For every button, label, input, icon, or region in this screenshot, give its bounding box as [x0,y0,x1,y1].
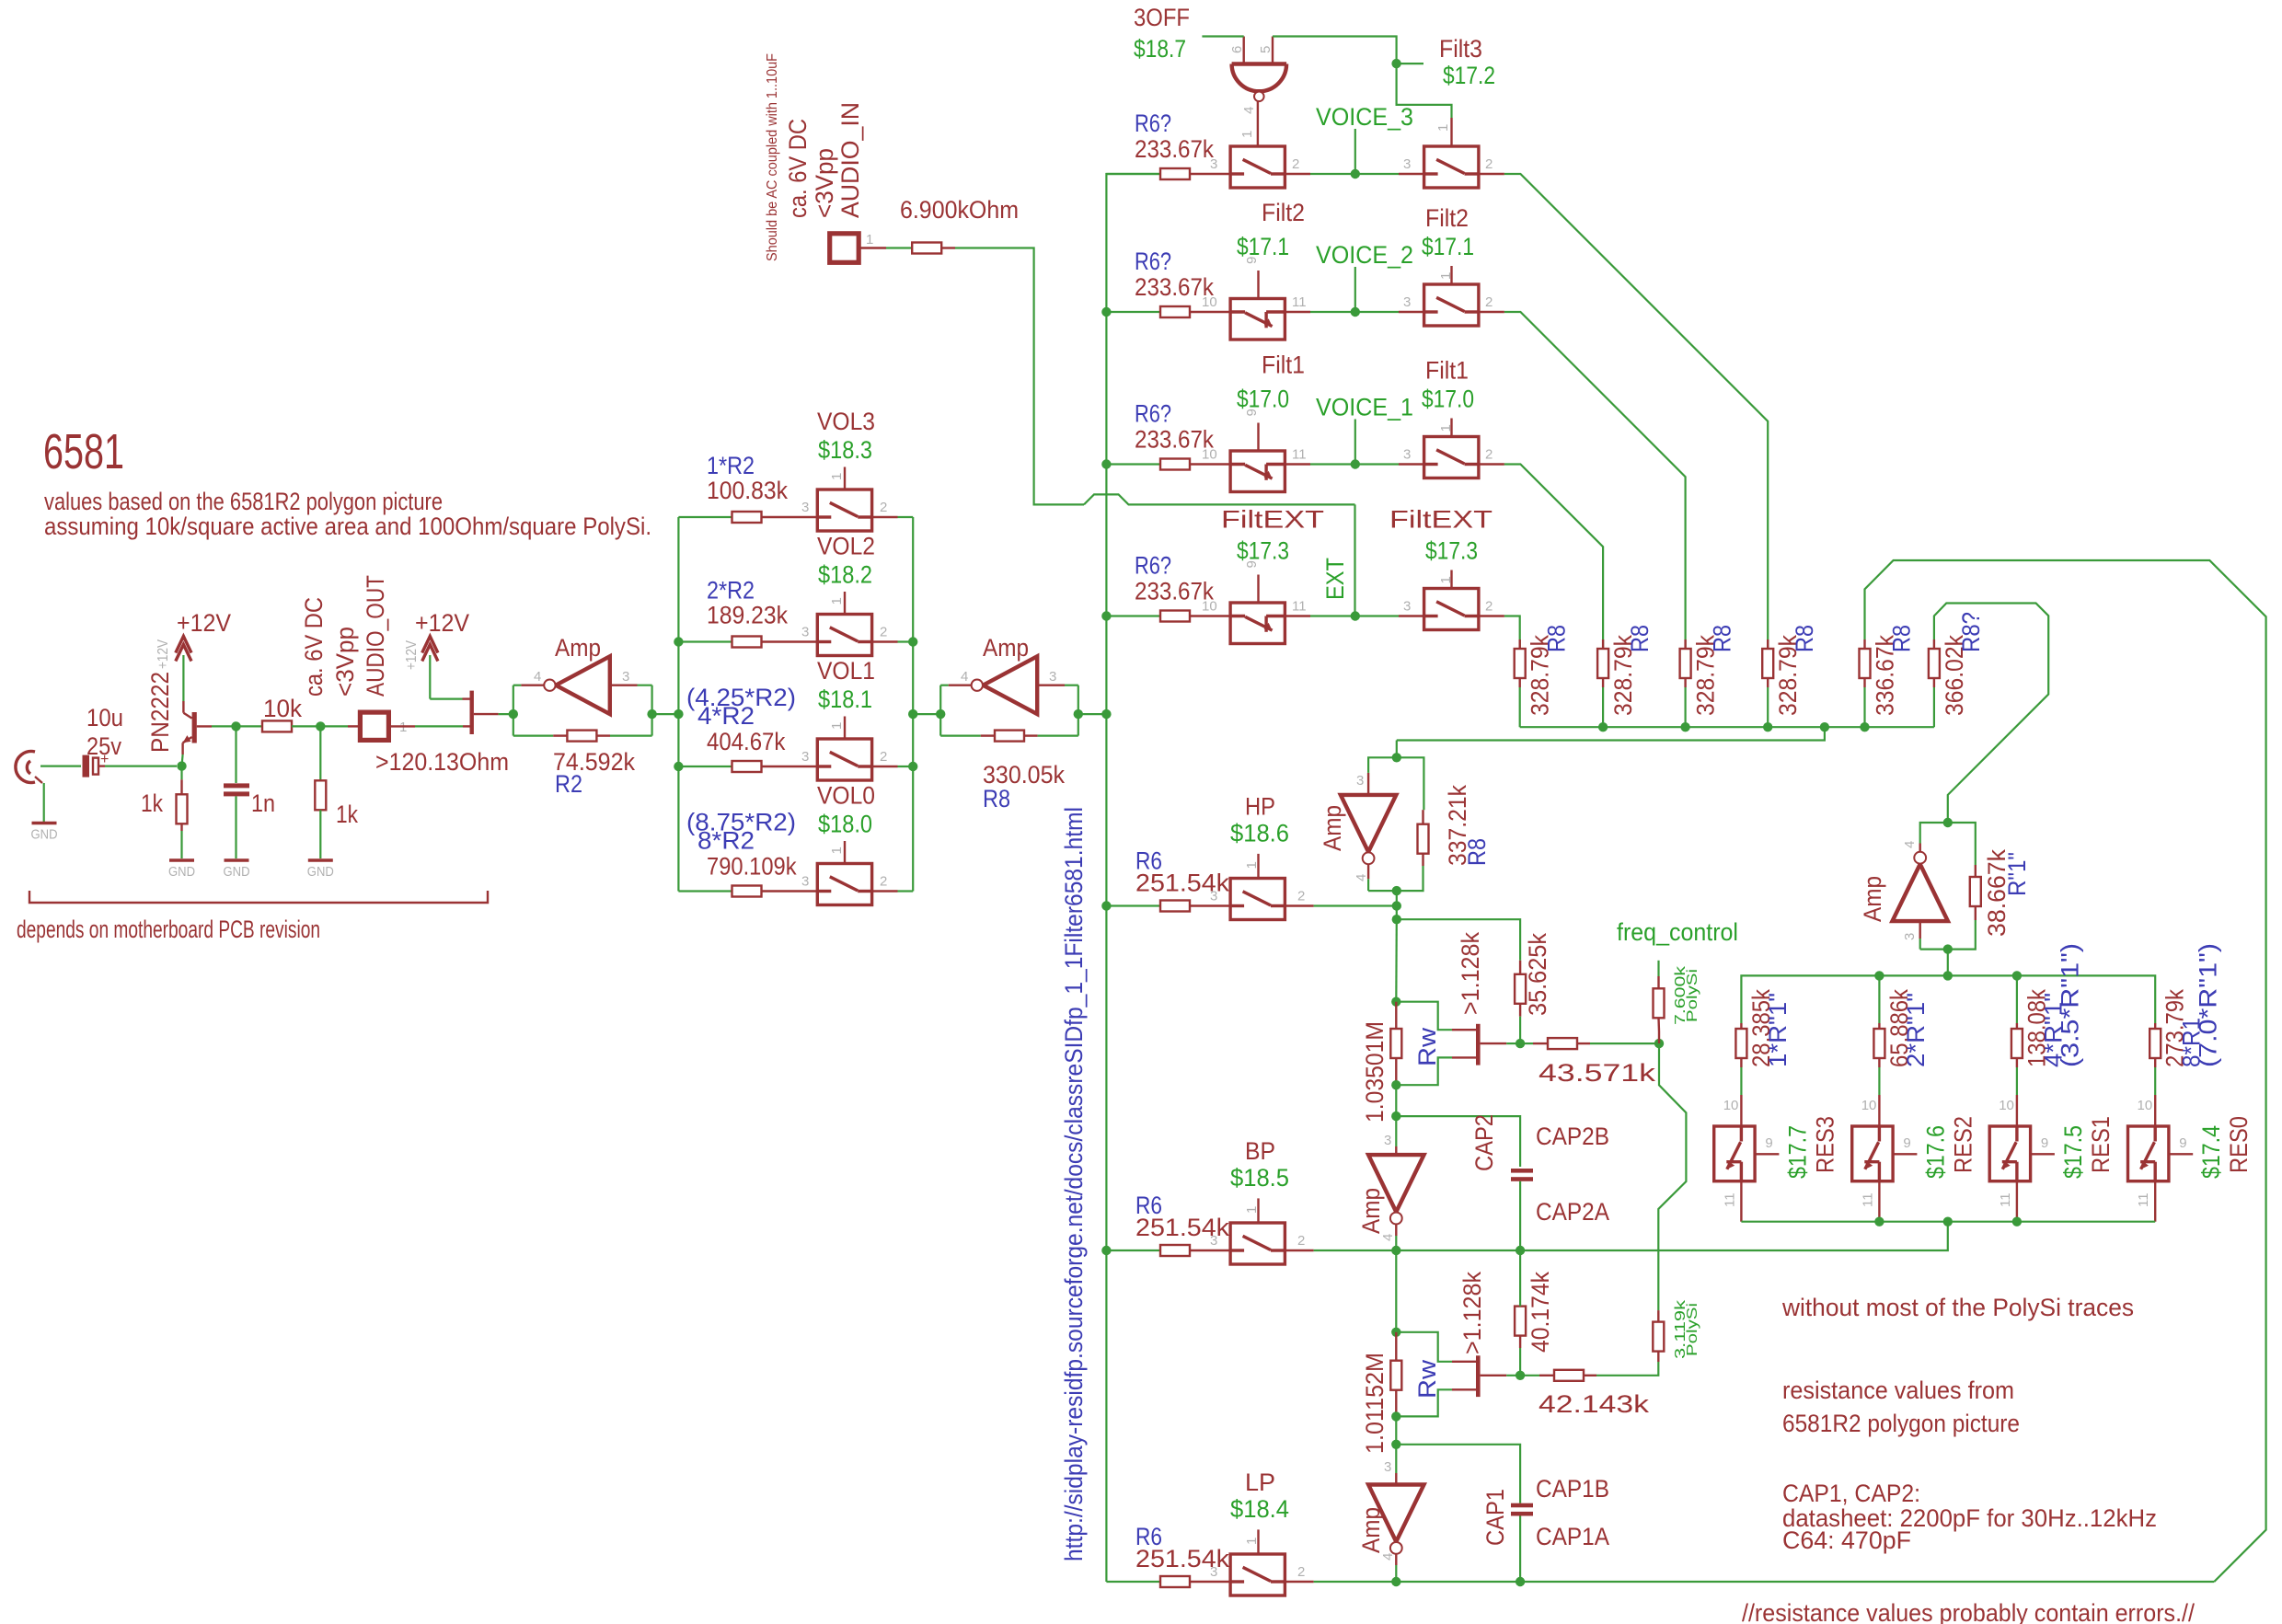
op-amp Amp LP [1368,1485,1423,1542]
wire row FiltEXT output [1479,615,1504,616]
resistor R6 251.54k LP [1160,1576,1190,1587]
switch right Filt2 [1424,284,1479,326]
wire jack to GND [43,783,45,822]
wire Filt1 output diagonal to column 2 [1504,465,1603,650]
wire VOL1 row [678,766,732,767]
svg-text:VOL3: VOL3 [817,408,875,435]
capacitor 10u 25v electrolytic [83,755,90,777]
resistor R8 328.79k column [1597,649,1608,678]
svg-text:$17.6: $17.6 [1921,1125,1949,1179]
svg-text:233.67k: 233.67k [1135,135,1214,163]
resistor 65.886k RES2 [1878,975,1880,1023]
svg-text:Amp: Amp [1357,1188,1385,1234]
pin 9 stub left switch FiltEXT [1257,575,1259,604]
svg-text:1*R"1": 1*R"1" [1764,993,1792,1067]
svg-text:10: 10 [1202,599,1217,615]
svg-text:CAP1: CAP1 [1481,1489,1509,1546]
wire 40.174k to gate dot [1519,1348,1521,1376]
pad AUDIO_IN [830,234,859,262]
op-amp Amp2 [983,656,1037,714]
junction Rw1 bottom dot [1391,1080,1400,1089]
svg-text:$18.7: $18.7 [1134,35,1186,63]
wire +12V to FET drain [429,655,431,699]
wire LP row [1285,1581,1313,1583]
svg-text:R6?: R6? [1135,552,1171,580]
pin 9 stub left switch Filt1 [1257,423,1259,452]
wire Amp4 output to RES bus [1947,950,1949,976]
svg-text:1: 1 [829,473,845,480]
junction Filt3 net dot [1391,59,1400,68]
svg-text:<3Vpp: <3Vpp [811,148,838,218]
wire AUDIO_OUT pad to FET gate [388,725,415,727]
switch RES1 [1989,1126,2030,1181]
net label VOICE_2 [1354,267,1356,312]
resistor 1.03501M [1390,1029,1401,1058]
svg-text:10: 10 [1723,1098,1739,1113]
svg-text:PolySi: PolySi [1685,969,1700,1022]
svg-text:(7.0*R"1"): (7.0*R"1") [2195,943,2222,1067]
svg-text:values based on the 6581R2 pol: values based on the 6581R2 polygon pictu… [44,488,443,515]
pin 11 wire RES3 [1740,1181,1742,1222]
op-amp Amp HP [1341,795,1396,852]
svg-text:>1.128k: >1.128k [1457,932,1484,1015]
wire Q1 emitter to R-1k [182,754,183,766]
svg-text:Amp: Amp [1319,805,1346,851]
wire HP row to amp node [1285,904,1313,906]
svg-text:resistance values from: resistance values from [1782,1376,2014,1404]
svg-text:1: 1 [1438,576,1454,583]
svg-text:1: 1 [1244,1206,1260,1214]
wire R-1k right to GND [319,810,321,858]
svg-text:HP: HP [1245,793,1275,821]
svg-text:2*R"1": 2*R"1" [1902,993,1930,1067]
junction row FiltEXT mid dot [1351,611,1360,620]
pin 9 stub RES0 [2169,1153,2193,1155]
svg-text:R8: R8 [1791,625,1818,652]
svg-text:VOL2: VOL2 [817,533,875,560]
junction HP gate corner [1392,915,1401,924]
junction Rw2 bottom dot [1391,1411,1400,1421]
svg-text:ca. 6V DC: ca. 6V DC [300,597,328,697]
wire 3OFF input [1202,35,1243,37]
wire 42.143k to 3.119k [1596,1362,1658,1376]
pin 11 wire RES0 [2154,1181,2156,1222]
svg-text:404.67k: 404.67k [707,728,786,755]
wire gate node to 43.571k [1506,1042,1520,1044]
switch RES3 [1714,1126,1755,1181]
svg-text:$18.6: $18.6 [1230,820,1289,847]
switch right FiltEXT [1424,589,1479,630]
svg-text:CAP1, CAP2:: CAP1, CAP2: [1782,1480,1920,1507]
wire summing bus to HP amp [1397,727,1825,740]
pin 11 wire RES2 [1878,1181,1880,1222]
wire row Filt2 output [1479,311,1504,313]
svg-text:3: 3 [801,625,809,640]
wire 6.900kOhm to EXT [941,247,955,248]
svg-text:$17.1: $17.1 [1422,233,1474,260]
svg-text:1: 1 [829,847,845,854]
svg-text:2: 2 [1292,156,1299,172]
svg-text:100.83k: 100.83k [707,477,788,504]
wire main audio bus [1106,174,1160,1582]
svg-text:1k: 1k [141,789,163,817]
wire Amp2 output to main bus [1078,713,1107,715]
resistor 138.08k RES1 [2016,975,2018,1023]
wire Rw2 lower loop [1396,1389,1452,1416]
svg-text:1n: 1n [251,789,275,817]
pin 9 stub RES2 [1893,1153,1917,1155]
svg-text:10k: 10k [263,695,302,722]
svg-text:RES3: RES3 [1811,1116,1838,1173]
resistor R6? 233.67k row Filt1 [1160,459,1190,470]
svg-text:R6?: R6? [1135,400,1171,428]
svg-text:3: 3 [1210,156,1217,172]
wire CAP1 branch [1396,1445,1520,1503]
wire RES bottom bus [1741,1221,2155,1223]
junction LP row dots [1391,1577,1400,1586]
svg-text:$18.0: $18.0 [818,811,872,838]
svg-text:Rw: Rw [1413,1027,1441,1066]
pins nand 6 5 1 [1242,37,1244,64]
wire row Filt3 output [1479,173,1504,175]
svg-text:2: 2 [1297,1564,1305,1580]
svg-text:3: 3 [1403,156,1411,172]
svg-text:9: 9 [2179,1135,2186,1151]
svg-text:GND: GND [168,864,195,880]
svg-text:2: 2 [880,749,887,765]
wire C-10u to Q1 emitter node [105,765,177,766]
pin 11 wire RES1 [2016,1181,2018,1222]
wire BP chain down [1395,1250,1397,1332]
junction Amp4 output node dot [1943,944,1953,953]
resistor R6? 233.67k row Filt3 [1160,168,1190,179]
junction VOL left bus dots [674,637,683,646]
wire R8 bottom summing bus [1520,726,1934,728]
resistor R 10k [262,720,292,731]
svg-text:$17.0: $17.0 [1422,386,1474,413]
junction Amp2 output node [1074,709,1083,719]
svg-text:1: 1 [829,722,845,730]
junction CAP1 node dot [1391,1440,1400,1449]
wire row Filt1 output [1479,463,1504,465]
svg-text:11: 11 [1292,599,1307,615]
switch VOL0 [817,864,871,905]
net label VOICE_1 [1354,420,1356,465]
wire row FiltEXT bus to resistor [1106,615,1160,616]
switch BP [1230,1223,1285,1264]
svg-text:11: 11 [1722,1192,1737,1207]
wire row Filt3 between switches [1285,173,1310,175]
svg-text:10: 10 [2138,1098,2153,1113]
svg-text:Filt2: Filt2 [1262,199,1305,226]
pad AUDIO_OUT [348,725,360,727]
svg-text:VOL1: VOL1 [817,657,875,685]
switch left Filt2 row Filt2 [1230,299,1285,340]
svg-text:depends on motherboard PCB rev: depends on motherboard PCB revision [17,916,320,943]
op-amp Amp1 [556,656,610,714]
junction Rw1 top dot [1391,997,1400,1007]
wire Rw1 upper loop [1396,1002,1452,1031]
junction VOL right bus dots [908,637,917,646]
svg-text://resistance values probably c: //resistance values probably contain err… [1742,1599,2195,1624]
resistor R8 328.79k column [1515,649,1526,678]
svg-text:2: 2 [1297,1233,1305,1249]
wire Q1 collector to +12V [182,655,184,701]
wire HP chain down [1395,919,1398,1001]
svg-text:R"1": R"1" [2003,852,2031,896]
wire gate node to 42.143k [1506,1375,1539,1376]
svg-text:2: 2 [880,625,887,640]
switch RES0 [2128,1126,2169,1181]
svg-text:9: 9 [1903,1135,1910,1151]
svg-text:assuming 10k/square active are: assuming 10k/square active area and 100O… [44,513,651,540]
svg-text:Should be AC coupled with 1..1: Should be AC coupled with 1..10uF [765,53,780,261]
svg-text:3: 3 [1049,669,1056,685]
resistor R6? 233.67k row FiltEXT [1160,611,1190,622]
svg-text:$17.4: $17.4 [2197,1125,2225,1179]
svg-text:$17.1: $17.1 [1237,233,1289,260]
switch left FiltEXT row FiltEXT [1230,603,1285,644]
switch left Filt1 row Filt1 [1230,451,1285,492]
junction HP row node [1392,901,1401,910]
resistor R8? 366.02k column [1929,649,1940,678]
wire R-1k to GND [180,831,182,858]
wire CAP2 branch [1396,1116,1520,1167]
svg-text:$17.2: $17.2 [1443,62,1495,89]
svg-text:3: 3 [1403,447,1411,463]
svg-text:$18.2: $18.2 [818,561,872,589]
svg-text:4: 4 [961,669,968,685]
svg-text:11: 11 [2136,1192,2151,1207]
wire freq_control stub [1657,961,1659,976]
svg-text:1k: 1k [336,800,358,828]
wire jack to C-10u [40,765,81,766]
switch RES2 [1852,1126,1893,1181]
junction Rw2 top dot [1391,1328,1400,1337]
wire HP to 35.625k [1397,919,1520,961]
junction Amp HP output node [1392,886,1401,895]
svg-text:$17.0: $17.0 [1237,386,1289,413]
junction R8 bus dots [1598,722,1608,731]
svg-text:3: 3 [622,669,629,685]
wire Amp2 input from VOL bus [913,713,940,715]
svg-text:CAP1A: CAP1A [1536,1523,1609,1550]
wire Amp2 feedback left [940,734,981,736]
wire Rw1 chain to dot3 [1395,1085,1397,1116]
pin 9 stub RES1 [2031,1153,2055,1155]
svg-text:3: 3 [1210,1233,1217,1249]
svg-text:42.143k: 42.143k [1539,1390,1650,1418]
wire Amp BP output to row [1395,1236,1397,1250]
resistor 42.143k [1554,1370,1584,1381]
wire Rw2 chain to dot3 [1395,1416,1397,1444]
svg-text:11: 11 [1860,1192,1875,1207]
svg-text:8*R2: 8*R2 [697,827,755,855]
resistor R8 330.05k [995,731,1024,742]
resistor 6.900kOhm [912,243,941,254]
resistor 7.600k PolySi [1654,988,1665,1018]
junction freq node dot [1654,1039,1664,1048]
wire EXT vertical [1354,504,1355,616]
svg-text:+12V: +12V [404,640,420,670]
svg-text:6.900kOhm: 6.900kOhm [900,196,1019,224]
svg-text:25v: 25v [86,732,121,760]
resistor 273.79k RES0 [2154,1023,2156,1029]
svg-text:R8: R8 [1543,625,1571,652]
svg-text:Amp: Amp [1357,1507,1385,1553]
wire BP row [1285,1250,1313,1251]
wire row Filt1 bus to resistor [1106,463,1160,465]
pin 1 stub LP switch [1257,1529,1259,1554]
svg-text:35.625k: 35.625k [1524,933,1551,1016]
svg-text:4: 4 [1241,107,1257,114]
wire Amp1 feedback right / output [610,734,652,736]
svg-text:1: 1 [1438,424,1454,432]
resistor 2*R2 189.23k [732,637,762,648]
wire HP node vertical [1396,891,1398,905]
ground GND under R-1k right [308,858,333,861]
junction main bus at Amp2 output [1101,709,1111,719]
svg-text:freq_control: freq_control [1617,918,1738,946]
wire nand pin5 to Filt3 switch [1273,37,1452,119]
svg-text:RES1: RES1 [2087,1116,2115,1173]
svg-text:$17.5: $17.5 [2059,1125,2087,1179]
resistor R 1k left [177,794,188,824]
wire 337.21k bottom to pin4 node [1368,866,1423,891]
svg-text:3: 3 [1403,294,1411,310]
resistor R8 336.67k column [1860,649,1871,678]
svg-text:Rw: Rw [1413,1359,1441,1399]
svg-text:CAP2B: CAP2B [1536,1123,1609,1150]
op-amp Amp4 [1893,864,1948,921]
transistor Q1 PN2222 [192,712,197,743]
svg-text:1: 1 [866,232,873,248]
wire Filt2 output diagonal to column 3 [1504,312,1686,649]
svg-text:Amp: Amp [1859,876,1886,922]
nand gate 3OFF [1232,62,1287,65]
wire row Filt2 bus to resistor [1106,311,1160,313]
svg-text:R8: R8 [1888,625,1916,652]
svg-text:10: 10 [1202,447,1217,463]
wire RES top bus [1741,975,2155,1023]
resistor 4*R2 404.67k [732,761,762,772]
svg-text:$18.4: $18.4 [1230,1495,1289,1523]
svg-text:3: 3 [801,874,809,890]
ground GND under R-1k [169,858,194,861]
svg-text:1*R2: 1*R2 [707,452,755,479]
svg-text:GND: GND [31,827,58,843]
resistor R8 328.79k column [1762,649,1773,678]
svg-text:AUDIO_OUT: AUDIO_OUT [362,575,389,697]
svg-text:6: 6 [1229,46,1245,53]
svg-text:11: 11 [1292,447,1307,463]
transistor Rw2 [1476,1355,1481,1397]
resistor 43.571k [1548,1038,1577,1049]
resistor 35.625k [1515,974,1526,1004]
svg-text:1: 1 [1239,131,1255,138]
resistor R8 337.21k [1418,824,1429,854]
svg-text:1.03501M: 1.03501M [1361,1021,1389,1123]
svg-text:10: 10 [1999,1098,2014,1113]
svg-text:1: 1 [1244,1538,1260,1545]
wire VOL0 row [678,890,732,892]
wire Filt3 output diagonal to column 4 [1504,174,1768,649]
svg-text:4: 4 [1902,841,1918,848]
switch VOL2 [817,615,871,656]
svg-text:$18.5: $18.5 [1230,1164,1289,1192]
junction HP top node [1392,753,1401,762]
junction BP row dots [1391,1246,1400,1255]
switch VOL3 [817,490,871,531]
svg-text:C64: 470pF: C64: 470pF [1782,1526,1911,1554]
svg-text:CAP2A: CAP2A [1536,1198,1609,1226]
svg-text:RES0: RES0 [2225,1116,2253,1173]
svg-text:$17.3: $17.3 [1425,537,1478,565]
wire Rw2 upper loop [1396,1332,1452,1362]
svg-text:PN2222: PN2222 [146,672,174,753]
svg-text:3: 3 [1210,1564,1217,1580]
connector jack J1 [16,752,35,783]
wire FET source to Amp1 input node [499,713,513,715]
wire Amp2 feedback right / output [1038,734,1078,736]
junction node AUDIO_OUT [316,721,325,731]
svg-text:ca. 6V DC: ca. 6V DC [784,119,812,218]
junction Amp1 input node [509,709,518,719]
svg-text:1: 1 [829,597,845,605]
svg-text:2*R2: 2*R2 [707,577,755,605]
wire LP row from bus [1106,1581,1160,1583]
wire Amp1 output to VOL bus [652,713,679,715]
wire row Filt3 bus to resistor [1106,173,1160,175]
wire Amp1 input loop [513,685,514,736]
wire 336.67k top loop to LP [1865,560,2266,1582]
wire HP top node to summing [1396,741,1398,758]
pin 1 stub BP switch [1257,1198,1259,1223]
junction row Filt2 mid dot [1351,307,1360,317]
wire Amp HP pin3 loop top [1368,757,1423,810]
svg-text:11: 11 [1998,1192,2013,1207]
bracket depends on motherboard PCB revision [29,891,488,903]
svg-text:CAP2: CAP2 [1470,1114,1498,1171]
wire row FiltEXT between switches [1285,615,1310,616]
wire VOL right bus [912,517,914,892]
svg-text:1: 1 [1438,272,1454,280]
svg-text:Amp: Amp [555,634,601,662]
svg-text:9: 9 [2041,1135,2048,1151]
resistor 40.174k [1515,1307,1526,1336]
svg-text:189.23k: 189.23k [707,602,788,629]
svg-text:6581: 6581 [43,424,124,479]
wire VOL left bus [677,517,679,892]
svg-text:CAP1B: CAP1B [1536,1475,1609,1503]
svg-text:<3Vpp: <3Vpp [331,627,359,697]
svg-text:Amp: Amp [983,634,1029,662]
resistor 1*R2 100.83k [732,512,762,523]
svg-text:790.109k: 790.109k [707,853,797,881]
wire CAP2 to BP row [1519,1181,1521,1250]
resistor R6 251.54k BP [1160,1245,1190,1256]
junction RES bottom bus dots [1874,1217,1884,1227]
svg-text:3: 3 [801,500,809,515]
svg-text:Filt3: Filt3 [1439,35,1482,63]
wire Amp LP input [1395,1445,1397,1473]
junction emitter node [177,761,186,770]
wire 35.625k to gate dot [1519,1017,1521,1043]
pin 1 stub VOL3 [844,467,846,490]
wire 366.02k top loop to Amp4 input [1934,604,2048,824]
svg-text:+12V: +12V [177,609,231,637]
svg-text:3OFF: 3OFF [1134,4,1190,31]
